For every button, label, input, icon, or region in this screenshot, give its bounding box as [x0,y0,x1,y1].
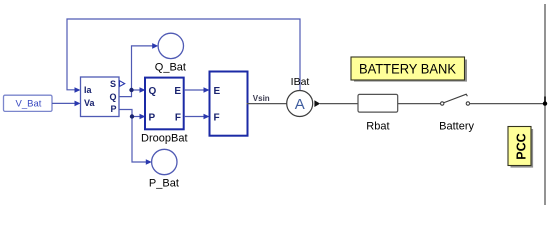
goto/scope circle Q_Bat [155,33,186,73]
wire: Q output to DroopBat Q input with branch up to Q_Bat [119,46,156,97]
arrowhead into DroopBat P [140,114,146,120]
wire: P output to DroopBat P input with branch down to P_Bat [119,110,149,163]
wire: feedback loop from IBat ammeter output up/around to Ia input [67,19,300,90]
svg-text:Battery: Battery [439,121,474,133]
arrowhead into Ia [75,87,81,93]
svg-text:DroopBat: DroopBat [141,133,187,145]
wire: DroopBat E to U3 E [184,89,207,91]
arrowhead into U3 E [204,87,210,93]
arrowhead into DroopBat Q [140,87,146,93]
wire: U3 output Vsin to ammeter (physical, gray) [247,103,288,105]
ammeter A (current measurement) IBat [287,76,313,117]
svg-text:Q: Q [109,92,116,102]
svg-text:P_Bat: P_Bat [149,178,179,190]
arrowhead into Va [75,101,81,107]
wire: V_Bat to Va [52,102,78,104]
svg-text:P: P [149,113,156,124]
PCC bus bar [544,4,546,205]
physical port arrow right of ammeter [314,100,320,107]
wire: DroopBat F to U3 F [184,116,207,118]
svg-text:F: F [214,113,220,124]
svg-text:S: S [110,79,116,89]
svg-text:Ia: Ia [84,85,93,95]
wire: switch to PCC bus [470,103,545,105]
svg-text:P: P [110,104,116,114]
goto/scope circle P_Bat [149,149,179,189]
svg-text:PCC: PCC [514,133,528,159]
from tag V_Bat [4,95,53,111]
svg-text:A: A [295,96,305,113]
svg-text:BATTERY BANK: BATTERY BANK [359,61,457,77]
svg-text:E: E [174,86,181,97]
junction dot on Q wire [129,88,133,92]
wire: Rbat to switch [398,103,440,105]
block DroopBat (Q,P -> E,F) [141,78,187,145]
unconnected output port chevron at S [120,81,125,87]
wire: ammeter to Rbat [320,103,358,105]
svg-text:E: E [214,86,221,97]
arrowhead into U3 F [204,114,210,120]
block U3 (E,F -> Vsin source) [210,72,248,136]
resistor Rbat [358,94,398,132]
svg-text:Rbat: Rbat [366,121,389,133]
svg-text:IBat: IBat [291,76,310,88]
arrowhead into Q_Bat scope [152,43,158,49]
junction dot on P wire [130,114,134,118]
svg-text:Vsin: Vsin [253,94,270,103]
svg-text:Q_Bat: Q_Bat [155,62,186,74]
svg-text:V_Bat: V_Bat [16,99,42,110]
svg-text:F: F [175,113,181,124]
subsystem block U1 (Ia,Va -> S,Q,P) [81,77,120,117]
annotation box PCC [508,127,532,167]
arrowhead into P_Bat scope [146,159,152,165]
junction stub on bus [544,97,546,104]
svg-text:Va: Va [84,98,96,108]
switch (breaker) Battery [441,94,470,105]
annotation box BATTERY BANK [351,57,466,81]
junction dot on bus [543,101,547,105]
svg-text:Q: Q [149,86,157,97]
